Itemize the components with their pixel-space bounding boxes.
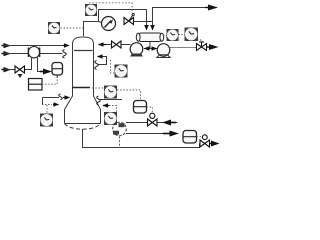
signal drum to box TI1 [163,35,167,37]
signal dotted top [89,3,132,13]
column C-1 shell [65,37,105,129]
signal bubble to bottoms valve [126,122,148,124]
instrument box TRC (clock face) [104,86,117,99]
small drum D-4 [183,131,197,144]
wire bottoms line with arrow left [157,122,178,124]
instrument box PT (top) [85,4,97,16]
signal between boxes [179,34,185,36]
wire vapor loop right side [98,57,107,65]
signal box to drum stub [42,77,57,84]
wire stream 1 [4,45,63,47]
wire column bottoms down and across [83,129,200,148]
arrow feed into column [63,97,70,99]
gauge FI overhead [102,17,116,31]
arrow reboiler return into column [103,105,109,107]
valve V1 overhead [124,14,134,25]
wire feed line to column [43,97,60,99]
wire and arrow reflux into column top [106,44,112,46]
valve V6 bottoms product [200,135,210,147]
column skirt line [65,123,101,125]
wire drum to pumps [149,42,151,49]
valve V5 bottoms [148,113,158,126]
arrow loop into column [98,56,103,58]
signal drum to valve actuator [147,107,153,113]
arrow into right pump [152,46,158,51]
wire bubble to drum D-4 [126,133,164,135]
wire device legs [25,58,32,70]
condenser drum D-1 [136,33,163,42]
wire overhead down-leg into drum [146,10,148,31]
level controller bubble with taps [113,122,127,136]
zigzag connector column right mid [95,61,99,70]
arrow distillate product out [207,46,211,48]
wire reflux line [121,44,131,46]
wire distillate line [170,47,196,49]
instrument box LC (clock face) [185,28,199,42]
wire riser to top-right arrow [153,8,206,22]
arrow feed stream 2 [2,53,6,55]
arrow into drum D-4 [163,133,170,135]
signal dotted with arrow [42,104,52,106]
instrument box TI2 (clock face) [115,65,128,78]
reboiler drum D-3 [134,101,147,114]
valve V2 reflux [112,41,122,48]
signal TRC to reboiler drum [117,90,141,100]
small drum D-2 [52,63,63,79]
arrow overhead product out [205,7,209,9]
signal box to distillate valve [197,40,202,44]
pump P-1 (reflux) [130,43,143,57]
arrow into left pump [144,46,150,51]
wire stream 3 [4,69,15,71]
zigzag connector feed [59,94,63,100]
column bottom dome [65,124,101,130]
instrument box FRC (two cell) [29,79,43,91]
instrument box LG (clock face) [104,112,117,125]
signal loop to box TI2 [111,60,115,73]
column tray 2 dotted extension [92,87,104,89]
inline device circle (meter) [28,47,39,58]
arrow into small drum D-2 [40,71,44,73]
pump P-2 (distillate) [157,44,170,58]
arrow feed stream 3 [2,69,6,71]
signal drum D-4 to valve V6 [197,137,206,140]
wire stub lower right [100,99,122,101]
column dome top [73,37,94,45]
column tray 1 [74,50,93,52]
signal PIC to riser [61,27,84,29]
wire second leg into drum [152,22,154,31]
wire overhead vapor riser [84,10,147,37]
wire gauge to riser [99,22,102,23]
valve V4 [15,66,25,78]
instrument box PIC top-left (clock face) [48,22,60,34]
zigzag connector stream 2 [63,50,67,59]
instrument box FC (clock face) [40,114,53,127]
valve V3 distillate [197,42,207,51]
arrow bottoms product out [210,143,213,145]
instrument box LI (right of drum) [167,29,179,41]
signal dotted to arrow [109,106,117,113]
wire valve to drum leg [134,21,153,23]
wire feed drop [42,98,44,105]
arrow feed stream 1 [2,45,6,47]
zigzag connector lower right wall [97,96,101,105]
column tray 2 [72,87,90,89]
column walls [65,45,73,124]
signal to box FC [46,105,48,113]
wire stream 2 [4,53,63,55]
